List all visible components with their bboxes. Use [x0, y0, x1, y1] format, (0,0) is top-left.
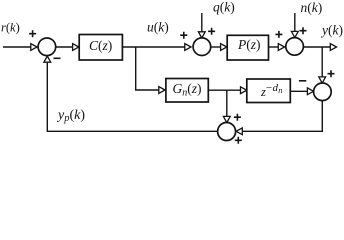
- wire summer3 to y(k) output: [303, 46, 331, 48]
- arrowhead q(k) into summer2: [198, 32, 205, 38]
- arrowhead into z-dn: [241, 87, 247, 94]
- block P(z): [227, 35, 268, 60]
- sign plus summer5 top: [234, 114, 241, 121]
- wire summer2 to P(z): [211, 46, 221, 48]
- wire q(k) drop: [201, 13, 203, 33]
- arrowhead into Gn(z): [159, 87, 165, 94]
- wire branch u(k) down: [136, 47, 159, 90]
- svg-text:yp(k): yp(k): [56, 108, 85, 124]
- arrowhead into P(z): [221, 44, 227, 51]
- arrowhead into summer2: [185, 44, 191, 51]
- arrowhead into summer1: [31, 44, 37, 51]
- sign plus summer1: [29, 30, 36, 37]
- wire P(z) to summer3: [269, 46, 279, 48]
- svg-text:u(k): u(k): [147, 20, 169, 35]
- arrowhead into summer3: [278, 44, 284, 51]
- sign plus summer3 right: [300, 27, 307, 34]
- block Gn(z): [166, 79, 208, 103]
- block C(z): [79, 35, 122, 61]
- summer3 circle: [286, 38, 304, 56]
- wire summer5 left feedback to summer1: [47, 63, 217, 132]
- wire y(k) branch down to summer4: [321, 47, 323, 78]
- sign plus summer3 left: [275, 31, 282, 38]
- arrowhead into summer5 right: [236, 128, 242, 135]
- wire r(k) input: [3, 46, 32, 48]
- wire C(z) to summer2: [122, 46, 185, 48]
- svg-text:P(z): P(z): [237, 37, 261, 52]
- arrowhead y(k) output: [330, 44, 336, 51]
- wire branch down to summer5: [226, 90, 228, 117]
- sign minus summer4 left: [299, 80, 306, 82]
- summer2 circle: [193, 38, 211, 56]
- svg-text:Gn(z): Gn(z): [173, 81, 202, 98]
- summer1 circle: [38, 38, 56, 56]
- wire z-dn to summer4: [290, 90, 308, 92]
- wire n(k) drop: [294, 13, 296, 33]
- sign minus summer1: [54, 57, 61, 59]
- sign plus summer2 left: [180, 32, 187, 39]
- svg-text:C(z): C(z): [89, 38, 112, 53]
- wire Gn(z) to z-dn: [208, 89, 241, 91]
- sign plus summer4 top: [328, 70, 335, 77]
- svg-text:r(k): r(k): [1, 21, 20, 35]
- svg-text:n(k): n(k): [301, 0, 323, 15]
- arrowhead n(k) into summer3: [291, 31, 298, 37]
- svg-text:y(k): y(k): [320, 22, 343, 37]
- arrowhead into summer5 top: [223, 116, 230, 122]
- sign plus summer2 right: [208, 28, 215, 35]
- wire summer4 down and left to summer5: [242, 101, 322, 132]
- block z^-dn: [247, 79, 290, 103]
- summer4 circle: [314, 83, 332, 101]
- arrowhead z-dn into summer4: [307, 88, 313, 95]
- wire summer1 to C(z): [56, 46, 73, 48]
- arrowhead into C(z): [73, 44, 79, 51]
- arrowhead into summer4 top: [319, 77, 326, 83]
- svg-text:q(k): q(k): [213, 0, 235, 14]
- summer5 circle: [218, 123, 236, 141]
- sign plus summer5 bottom: [235, 137, 242, 144]
- arrowhead into summer1 bottom: [44, 56, 51, 62]
